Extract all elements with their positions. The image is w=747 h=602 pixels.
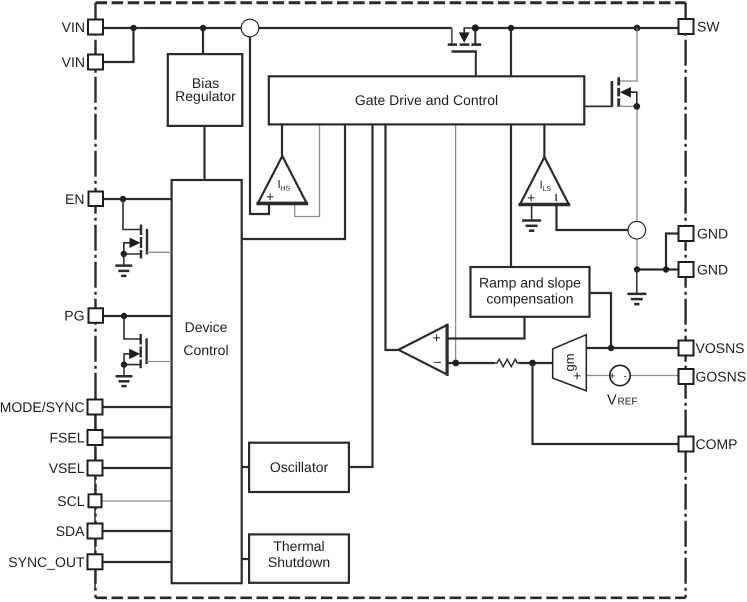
block Device Control bbox=[172, 180, 242, 583]
wire Oscillator to Gate Drive bbox=[349, 124, 373, 467]
svg-text:LS: LS bbox=[543, 186, 552, 193]
wire IHS negative input loop to Gate Drive bbox=[295, 124, 320, 216]
transistor high-side power FET bbox=[448, 24, 482, 76]
wire low-side source to sense bubble bbox=[636, 106, 638, 221]
HS body diode arrow bbox=[459, 32, 470, 42]
block Thermal Shutdown bbox=[249, 534, 349, 582]
svg-text:Oscillator: Oscillator bbox=[270, 459, 329, 475]
LS channel segment drain bbox=[617, 77, 620, 85]
transistor PG pulldown FET bbox=[116, 313, 172, 386]
svg-text:VSEL: VSEL bbox=[49, 460, 85, 476]
svg-text:Ramp and slope: Ramp and slope bbox=[479, 274, 581, 290]
wire resistor to gm output bbox=[519, 362, 553, 364]
wire VIN rail segment 2 bbox=[259, 27, 452, 29]
node junction GND1 branch bbox=[663, 266, 669, 272]
wire ILS output to Gate Drive bbox=[543, 124, 545, 157]
svg-text:VOSNS: VOSNS bbox=[696, 340, 745, 356]
pin EN bbox=[89, 192, 104, 207]
svg-text:+: + bbox=[609, 371, 615, 383]
wire Bias Regulator to Device Control bbox=[203, 125, 205, 180]
svg-text:-: - bbox=[624, 371, 627, 382]
wire IHS output to Gate Drive bbox=[281, 124, 283, 156]
ground near GND pins bbox=[627, 270, 646, 305]
HS drain contact bar bbox=[471, 43, 481, 46]
PG channel segment body bbox=[139, 347, 141, 358]
EN gate bar bbox=[146, 229, 148, 255]
svg-text:PG: PG bbox=[64, 308, 84, 324]
wire SDA pin to Device Control bbox=[103, 530, 172, 532]
node junction COMP tap bbox=[529, 360, 536, 367]
svg-text:−: − bbox=[434, 354, 442, 370]
block Ramp and slope compensation bbox=[471, 267, 590, 317]
pin VIN 1 bbox=[88, 20, 103, 35]
LS channel segment body bbox=[617, 88, 620, 97]
svg-text:GND: GND bbox=[697, 226, 728, 242]
wire LS source contact bbox=[619, 105, 637, 107]
wire EN pin to Device Control bbox=[103, 198, 172, 200]
pin VOSNS bbox=[679, 341, 694, 356]
wire gm minus input to VOSNS pin bbox=[586, 347, 678, 349]
svg-text:COMP: COMP bbox=[696, 436, 738, 452]
wire ground node to GND2 pin bbox=[637, 268, 679, 270]
svg-text:Gate Drive and Control: Gate Drive and Control bbox=[355, 92, 498, 108]
LS body arrow bbox=[620, 87, 631, 98]
svg-text:SW: SW bbox=[697, 19, 720, 35]
PG channel segment source bbox=[139, 360, 141, 369]
pin PG bbox=[89, 308, 104, 323]
svg-text:V: V bbox=[607, 393, 617, 409]
wire sense bubble to ground node bbox=[636, 239, 638, 270]
svg-text:VIN: VIN bbox=[62, 54, 85, 70]
svg-text:Regulator: Regulator bbox=[175, 88, 236, 104]
wire Device Control to Gate Drive bbox=[242, 124, 345, 239]
node junction ground net bbox=[634, 266, 640, 272]
IC boundary dashed border left bbox=[94, 3, 96, 598]
wire rail into HS source contact bbox=[451, 28, 453, 44]
svg-text:Device: Device bbox=[185, 319, 228, 335]
wire comparator minus input left segment bbox=[447, 362, 495, 364]
node junction HS drain on rail bbox=[472, 24, 479, 31]
wire comparator output to Gate Drive bbox=[386, 124, 399, 350]
wire EN gate to Device Control bbox=[147, 251, 172, 253]
HS source contact bar bbox=[448, 43, 457, 46]
ground EN FET bbox=[115, 254, 132, 276]
HS gate plate bbox=[452, 50, 477, 52]
wire LS body tie to source bbox=[631, 92, 637, 106]
pin GND 1 bbox=[679, 226, 694, 241]
svg-text:+: + bbox=[527, 190, 535, 206]
block Gate Drive and Control bbox=[269, 76, 585, 124]
wire PG pin to Device Control bbox=[103, 315, 172, 317]
wire gm plus input to VREF bbox=[586, 375, 609, 377]
node junction Bias tap bbox=[200, 25, 206, 31]
pin GOSNS bbox=[679, 369, 694, 384]
LS gate bar bbox=[611, 81, 614, 107]
EN body arrow bbox=[130, 238, 141, 248]
svg-text:HS: HS bbox=[281, 185, 291, 192]
wire VIN2 to rail bbox=[103, 28, 134, 62]
wire LS gate to Gate Drive bbox=[584, 105, 612, 107]
wire PG source contact bbox=[124, 364, 141, 366]
wire HS body tie to rail bbox=[464, 28, 475, 33]
svg-text:+: + bbox=[433, 330, 441, 346]
wire SYNC_OUT pin to Device Control bbox=[103, 561, 172, 563]
wire VIN rail segment 1 bbox=[103, 27, 241, 29]
svg-text:GND: GND bbox=[697, 262, 728, 278]
wire HS drain stub to rail bbox=[474, 28, 476, 44]
wire COMP tap to COMP pin bbox=[533, 363, 679, 444]
ground PG FET bbox=[116, 365, 133, 387]
block Oscillator bbox=[249, 443, 349, 492]
block Bias Regulator bbox=[168, 54, 243, 126]
node junction PG source bbox=[121, 361, 127, 367]
svg-text:Control: Control bbox=[183, 342, 228, 358]
EN channel segment body bbox=[140, 237, 142, 248]
op-amp PWM comparator bbox=[399, 324, 448, 376]
svg-text:Shutdown: Shutdown bbox=[268, 554, 330, 570]
wire link between lower left pins bbox=[94, 407, 96, 590]
voltage source VREF bbox=[609, 365, 630, 385]
LS channel segment source bbox=[617, 98, 620, 107]
node junction SW rail bbox=[634, 25, 641, 32]
node junction LS source bbox=[633, 103, 640, 110]
svg-text:FSEL: FSEL bbox=[49, 429, 84, 445]
svg-text:SYNC_OUT: SYNC_OUT bbox=[8, 554, 85, 570]
pin FSEL bbox=[88, 430, 103, 445]
wire Oscillator to Device Control bbox=[242, 466, 249, 468]
pin VIN 2 bbox=[88, 55, 103, 70]
wire SCL pin to Device Control bbox=[103, 500, 172, 502]
pin COMP bbox=[679, 437, 694, 452]
HS body contact bar bbox=[460, 43, 470, 46]
svg-text:Thermal: Thermal bbox=[273, 538, 324, 554]
wire Ramp output to VOSNS net bbox=[590, 293, 612, 348]
pin SCL bbox=[89, 494, 102, 507]
wire ground node to GND1 pin bbox=[666, 234, 679, 270]
pin SW bbox=[679, 19, 694, 34]
wire HS gate to Gate Drive bbox=[475, 52, 477, 77]
wire VIN rail segment 3 to SW bbox=[475, 27, 678, 29]
pin SYNC_OUT bbox=[88, 554, 103, 569]
svg-text:+: + bbox=[573, 368, 581, 384]
wire PG to FET drain bbox=[124, 316, 141, 339]
wire Gate Drive to summing node bbox=[455, 124, 457, 363]
svg-text:SCL: SCL bbox=[57, 493, 84, 509]
wire EN body tie bbox=[124, 243, 130, 254]
pin MODE/SYNC bbox=[88, 400, 103, 415]
svg-text:REF: REF bbox=[618, 397, 638, 408]
op-amp gm error amplifier bbox=[553, 335, 587, 391]
wire current sense to IHS positive input bbox=[250, 37, 269, 215]
EN channel segment drain bbox=[140, 225, 142, 236]
node junction rail Gate Drive tap bbox=[508, 25, 514, 31]
IC boundary dashed border top bbox=[96, 1, 686, 4]
wire EN source contact bbox=[124, 253, 141, 255]
svg-text:EN: EN bbox=[65, 191, 84, 207]
pin SDA bbox=[88, 524, 103, 539]
wire PG body tie bbox=[124, 354, 130, 365]
svg-text:MODE/SYNC: MODE/SYNC bbox=[0, 399, 85, 415]
svg-text:SDA: SDA bbox=[56, 523, 85, 539]
transistor EN pulldown FET bbox=[115, 196, 171, 276]
op-amp IHS current sense amplifier bbox=[257, 156, 309, 205]
wire VSEL pin to Device Control bbox=[103, 467, 172, 469]
current sense bubble on GND path bbox=[628, 221, 646, 239]
wire MODE/SYNC pin to Device Control bbox=[103, 406, 172, 408]
EN channel segment source bbox=[140, 250, 142, 259]
op-amp ILS current sense amplifier bbox=[519, 157, 571, 206]
wire rail to Gate Drive top bbox=[510, 28, 512, 76]
IC boundary dashed border bottom bbox=[96, 596, 686, 599]
node junction summing node bbox=[452, 360, 459, 367]
wire comparator plus input to Ramp block bbox=[447, 317, 525, 339]
wire Gate Drive to Ramp block bbox=[510, 124, 512, 267]
current sense bubble on VIN rail bbox=[241, 19, 259, 37]
IC boundary dashed border right bbox=[684, 3, 686, 598]
svg-text:GOSNS: GOSNS bbox=[696, 369, 747, 385]
wire SW to LS drain bbox=[619, 28, 637, 81]
wire Thermal Shutdown to Device Control bbox=[242, 558, 249, 560]
node junction VIN2 tap bbox=[130, 25, 136, 31]
wire rail to Bias Regulator bbox=[202, 28, 204, 55]
ground under ILS positive input bbox=[522, 204, 541, 230]
pin VSEL bbox=[88, 461, 103, 476]
svg-text:compensation: compensation bbox=[486, 291, 573, 307]
node junction EN wire bbox=[120, 196, 126, 202]
node junction EN source bbox=[121, 251, 127, 257]
pin GND 2 bbox=[679, 262, 694, 277]
resistor internal compensation bbox=[495, 359, 519, 366]
wire VREF to GOSNS pin bbox=[631, 375, 679, 377]
node junction PG wire bbox=[121, 313, 127, 319]
PG channel segment drain bbox=[139, 334, 141, 345]
PG gate bar bbox=[145, 338, 147, 364]
PG body arrow bbox=[129, 349, 140, 359]
node junction VOSNS ramp tap bbox=[608, 345, 614, 351]
svg-text:+: + bbox=[266, 189, 274, 205]
wire EN to FET drain bbox=[123, 199, 141, 230]
wire PG gate to Device Control bbox=[147, 361, 172, 363]
svg-text:VIN: VIN bbox=[62, 19, 85, 35]
transistor low-side power FET bbox=[584, 25, 640, 110]
wire FSEL pin to Device Control bbox=[103, 436, 172, 438]
wire ILS minus input to sense bubble bbox=[557, 204, 629, 230]
